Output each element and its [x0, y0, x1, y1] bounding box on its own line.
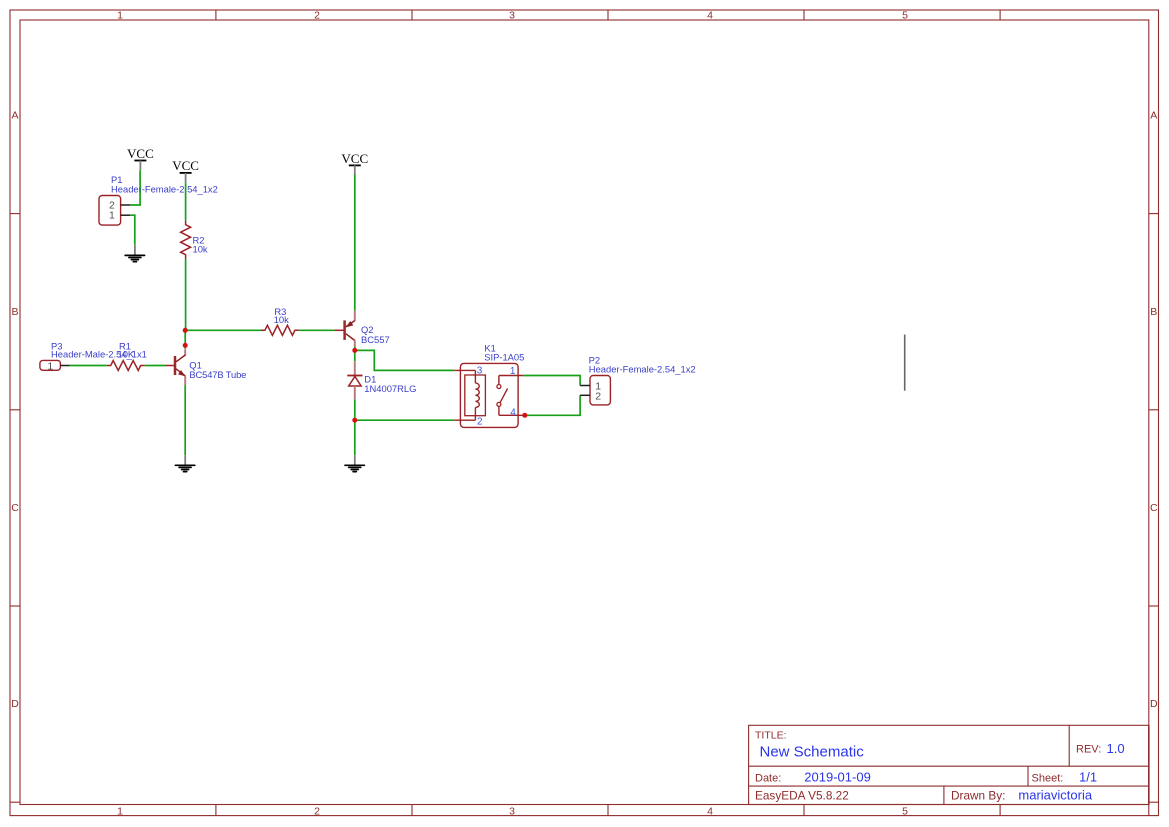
VCC2 pin stub — [185, 173, 187, 182]
top zone divider 4 — [803, 10, 805, 20]
svg-text:mariavictoria: mariavictoria — [1018, 788, 1092, 803]
bottom zone divider 3 — [607, 805, 609, 816]
top zone divider 3 — [607, 10, 609, 20]
switch top contact — [497, 385, 501, 389]
header P2 — [590, 376, 610, 405]
pin P2.1 — [580, 385, 590, 387]
relay coil box — [465, 375, 486, 416]
svg-text:3: 3 — [509, 805, 515, 817]
title block DrawnBy divider — [943, 786, 945, 804]
coil top lead — [474, 370, 476, 383]
right row divider B/C — [1149, 409, 1159, 411]
svg-text:VCC: VCC — [341, 151, 368, 166]
node J3 — [352, 348, 357, 353]
svg-text:2: 2 — [314, 10, 320, 22]
node J2 — [183, 343, 188, 348]
VCC3 bar — [349, 164, 361, 166]
P3 box — [40, 360, 61, 370]
svg-text:Drawn By:: Drawn By: — [951, 788, 1005, 802]
bottom zone divider 2 — [411, 805, 413, 816]
coil bottom lead — [474, 408, 476, 421]
svg-text:REV:: REV: — [1076, 744, 1101, 756]
svg-text:SIP-1A05: SIP-1A05 — [484, 351, 524, 362]
switch bottom lead — [498, 406, 500, 415]
Q2 emitter diagonal — [346, 321, 355, 327]
left row divider A/B — [10, 213, 20, 215]
ground G2 — [175, 455, 194, 471]
header P1 — [99, 196, 121, 226]
ground G1 — [125, 245, 144, 262]
right row divider C/D — [1149, 605, 1159, 607]
net VCC2 flag — [172, 158, 199, 182]
svg-text:Header-Female-2.54_1x2: Header-Female-2.54_1x2 — [589, 364, 696, 375]
diode D1 — [347, 361, 362, 399]
wire J4 to ground — [354, 420, 356, 455]
top zone divider 2 — [411, 10, 413, 20]
D1 cathode bar — [347, 375, 362, 377]
switch bottom contact — [497, 402, 501, 406]
svg-text:2019-01-09: 2019-01-09 — [804, 769, 871, 784]
wire relay pin4 to P2 pin2 — [525, 395, 580, 415]
ground G1 stub — [134, 245, 136, 255]
Q2 collector diagonal — [346, 334, 355, 341]
pin K1.4 — [499, 414, 523, 416]
P1 box — [99, 196, 121, 226]
svg-text:5: 5 — [902, 10, 908, 22]
TITLE BLOCK — [749, 725, 1149, 815]
svg-text:A: A — [1150, 110, 1157, 122]
title block row line 2 — [749, 785, 1149, 787]
left row divider C/D — [10, 605, 20, 607]
pin P3.1 — [60, 365, 69, 367]
left row divider D/end — [10, 801, 20, 803]
svg-text:3: 3 — [509, 10, 515, 22]
Q2 emitter arrow — [346, 321, 354, 327]
title block REV divider — [1068, 725, 1070, 766]
svg-text:10k: 10k — [274, 314, 289, 325]
right row divider D/end — [1149, 801, 1159, 803]
wire P1 pin1 to ground — [130, 215, 135, 245]
Q1 emitter arrow — [178, 370, 185, 376]
ground G3 bars — [345, 464, 364, 466]
ground G2 bars — [175, 464, 194, 466]
wire relay pin1 to P2 pin1 — [523, 376, 580, 386]
switch blade — [500, 388, 508, 402]
wire J1 to J2 — [184, 330, 186, 349]
svg-text:VCC: VCC — [172, 158, 199, 173]
node J5 — [522, 413, 527, 418]
Q2 base lead — [335, 329, 345, 331]
svg-text:D: D — [11, 698, 19, 710]
ground G3 stub — [354, 455, 356, 464]
svg-text:2: 2 — [477, 417, 483, 428]
top zone divider 1 — [215, 10, 217, 20]
bottom zone divider 4 — [803, 805, 805, 816]
svg-text:1/1: 1/1 — [1079, 769, 1097, 784]
svg-text:1: 1 — [510, 366, 516, 377]
bottom zone divider 5 — [999, 805, 1001, 816]
svg-text:3: 3 — [477, 366, 483, 377]
wire J4 to relay pin2 — [355, 419, 454, 421]
VCC3 pin stub — [354, 165, 356, 174]
wire J3 to relay pin3 — [355, 350, 454, 370]
svg-text:1: 1 — [117, 10, 123, 22]
Q1 emitter diagonal — [176, 369, 185, 376]
top zone divider 5 — [999, 10, 1001, 20]
wire J1 to R3 — [185, 329, 263, 331]
switch top lead — [498, 376, 500, 385]
VCC1 pin stub — [139, 161, 141, 171]
title block Sheet divider — [1027, 766, 1029, 786]
Q1 base lead — [165, 365, 175, 367]
pin K1.1 — [499, 375, 523, 377]
svg-text:2: 2 — [314, 805, 320, 817]
relay K1 — [454, 363, 523, 427]
svg-text:VCC: VCC — [127, 146, 154, 161]
Q1 collector diagonal — [176, 355, 186, 362]
resistor R2 — [181, 221, 191, 259]
Q1 emitter lead — [184, 375, 186, 385]
svg-text:1.0: 1.0 — [1107, 741, 1125, 756]
pin P1.1 — [121, 214, 131, 216]
header P3 — [40, 360, 61, 372]
Q1 collector lead — [184, 349, 186, 355]
svg-text:D: D — [1150, 698, 1158, 710]
svg-text:B: B — [11, 306, 18, 318]
VCC2 bar — [180, 172, 192, 174]
title block row line 1 — [749, 765, 1149, 767]
svg-text:New Schematic: New Schematic — [760, 744, 865, 761]
svg-text:4: 4 — [707, 805, 713, 817]
svg-text:BC557: BC557 — [361, 334, 390, 345]
wire Q1 emitter to ground — [184, 385, 186, 455]
Q1 base bar — [174, 356, 177, 375]
svg-text:4: 4 — [510, 408, 516, 419]
net VCC1 flag — [127, 146, 154, 170]
wire P3 to R1 — [70, 365, 107, 367]
ground G1 bars — [125, 254, 144, 256]
transistor Q2 — [335, 311, 355, 347]
wire J3 stub — [354, 346, 356, 361]
bottom zone divider 1 — [215, 805, 217, 816]
transistor Q1 — [165, 349, 185, 385]
pin P1.2 — [121, 204, 131, 206]
title block right edge overdraw — [1148, 725, 1150, 804]
resistor R1 — [107, 361, 145, 371]
svg-text:10k: 10k — [193, 244, 208, 255]
svg-text:C: C — [1150, 502, 1158, 514]
relay body outline — [460, 363, 518, 427]
P2 box — [590, 376, 610, 405]
svg-text:10K: 10K — [118, 349, 135, 360]
svg-text:A: A — [11, 110, 18, 122]
svg-text:5: 5 — [902, 805, 908, 817]
svg-text:Header-Female-2.54_1x2: Header-Female-2.54_1x2 — [111, 184, 218, 195]
svg-text:Sheet:: Sheet: — [1032, 772, 1064, 784]
svg-text:Date:: Date: — [755, 772, 781, 784]
pin K1.2 — [454, 419, 475, 421]
wire VCC3 to Q2 emitter — [354, 175, 356, 311]
wire R2 to node J1 — [185, 259, 187, 331]
svg-text:1N4007RLG: 1N4007RLG — [364, 383, 416, 394]
D1 cathode lead — [354, 361, 356, 375]
wire VCC2 to R2 — [185, 182, 187, 220]
stray gray wire — [904, 335, 906, 391]
bottom band right divider — [1148, 805, 1150, 816]
VCC1 bar — [134, 160, 146, 162]
svg-text:1: 1 — [109, 210, 115, 222]
Q2 emitter lead — [354, 311, 356, 321]
svg-text:TITLE:: TITLE: — [755, 730, 787, 742]
node J1 — [183, 328, 188, 333]
wire R3 to Q2 base — [299, 329, 335, 331]
pin K1.3 — [454, 369, 475, 371]
left row divider B/C — [10, 409, 20, 411]
svg-text:EasyEDA V5.8.22: EasyEDA V5.8.22 — [755, 788, 849, 802]
svg-text:1: 1 — [47, 360, 53, 372]
svg-text:B: B — [1150, 306, 1157, 318]
wire VCC1 to P1 pin2 — [130, 170, 140, 205]
wire R1 to Q1 base — [145, 365, 166, 367]
svg-text:4: 4 — [707, 10, 713, 22]
wire D1 to J4 — [354, 399, 356, 420]
svg-text:BC547B Tube: BC547B Tube — [189, 369, 246, 380]
Q2 collector lead — [354, 340, 356, 346]
svg-text:C: C — [11, 502, 19, 514]
D1 anode lead — [354, 386, 356, 399]
pin P2.2 — [580, 394, 590, 396]
right row divider A/B — [1149, 213, 1159, 215]
svg-text:2: 2 — [595, 390, 601, 402]
svg-text:1: 1 — [117, 805, 123, 817]
ground G3 — [345, 455, 364, 471]
Q2 base bar — [343, 320, 346, 340]
title block outline — [749, 725, 1149, 804]
ground G2 stub — [184, 455, 186, 464]
relay coil — [475, 383, 479, 407]
D1 triangle — [349, 376, 361, 386]
net VCC3 flag — [341, 151, 368, 174]
resistor R3 — [261, 325, 299, 335]
node J4 — [352, 418, 357, 423]
